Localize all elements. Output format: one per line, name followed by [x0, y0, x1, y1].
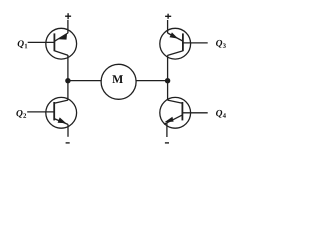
motor M — [101, 64, 136, 99]
svg-text:Q: Q — [17, 40, 24, 50]
svg-text:1: 1 — [24, 43, 28, 50]
wire Q1 collector to node A — [67, 55, 69, 81]
supply terminal + (left) — [65, 13, 71, 19]
wire motor to node B — [136, 80, 168, 82]
wire Q2 emitter to V- — [67, 124, 69, 137]
wire Q1 base lead — [28, 41, 55, 43]
supply terminal + (right) — [165, 14, 171, 19]
svg-text:Q: Q — [16, 109, 23, 119]
supply terminal - (left) — [66, 142, 70, 144]
svg-text:M: M — [112, 72, 123, 86]
node B (right junction) — [165, 78, 170, 83]
wire Q4 emitter to V- — [166, 123, 168, 137]
transistor Q1 (PNP, top-left) — [46, 28, 77, 59]
wire Q4 base lead — [182, 112, 207, 114]
wire node A to motor — [68, 80, 101, 82]
transistor Q3 (PNP, top-right) — [160, 28, 191, 59]
node A (left junction) — [65, 78, 70, 83]
svg-text:4: 4 — [223, 113, 227, 120]
wire Q3 collector to node B — [167, 55, 169, 80]
transistor Q2 (NPN, bottom-left) — [46, 97, 77, 128]
svg-text:Q: Q — [216, 109, 223, 119]
wire node A to Q2 collector — [67, 81, 69, 101]
wire Q3 emitter to V+ — [167, 20, 169, 33]
svg-text:Q: Q — [216, 39, 223, 49]
wire Q3 base lead — [183, 42, 208, 44]
wire Q1 emitter to V+ — [67, 20, 69, 33]
wire Q2 base lead — [27, 111, 54, 113]
wire node B to Q4 collector — [167, 81, 169, 101]
supply terminal - (right) — [165, 142, 169, 144]
transistor Q4 (NPN, bottom-right) — [160, 97, 191, 128]
svg-text:3: 3 — [223, 43, 227, 50]
